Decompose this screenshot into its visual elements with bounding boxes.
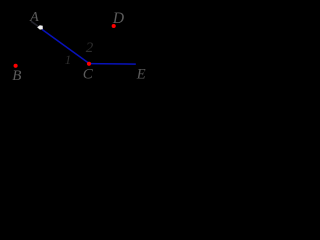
node D red point (112, 24, 116, 28)
wire faint extension of line above point A (31, 21, 39, 26)
background (0, 0, 156, 94)
svg-text:1: 1 (65, 52, 72, 67)
svg-text:E: E (136, 67, 146, 83)
node C red point (87, 62, 91, 66)
wire blue segment A to C (42, 30, 88, 63)
svg-text:C: C (83, 66, 94, 82)
svg-text:2: 2 (86, 40, 94, 56)
node B red point (14, 64, 18, 68)
svg-text:B: B (12, 68, 21, 84)
svg-text:D: D (112, 10, 124, 27)
wire blue horizontal segment C to E (89, 63, 136, 66)
svg-text:A: A (29, 10, 39, 25)
node A white drag marker (37, 25, 43, 29)
